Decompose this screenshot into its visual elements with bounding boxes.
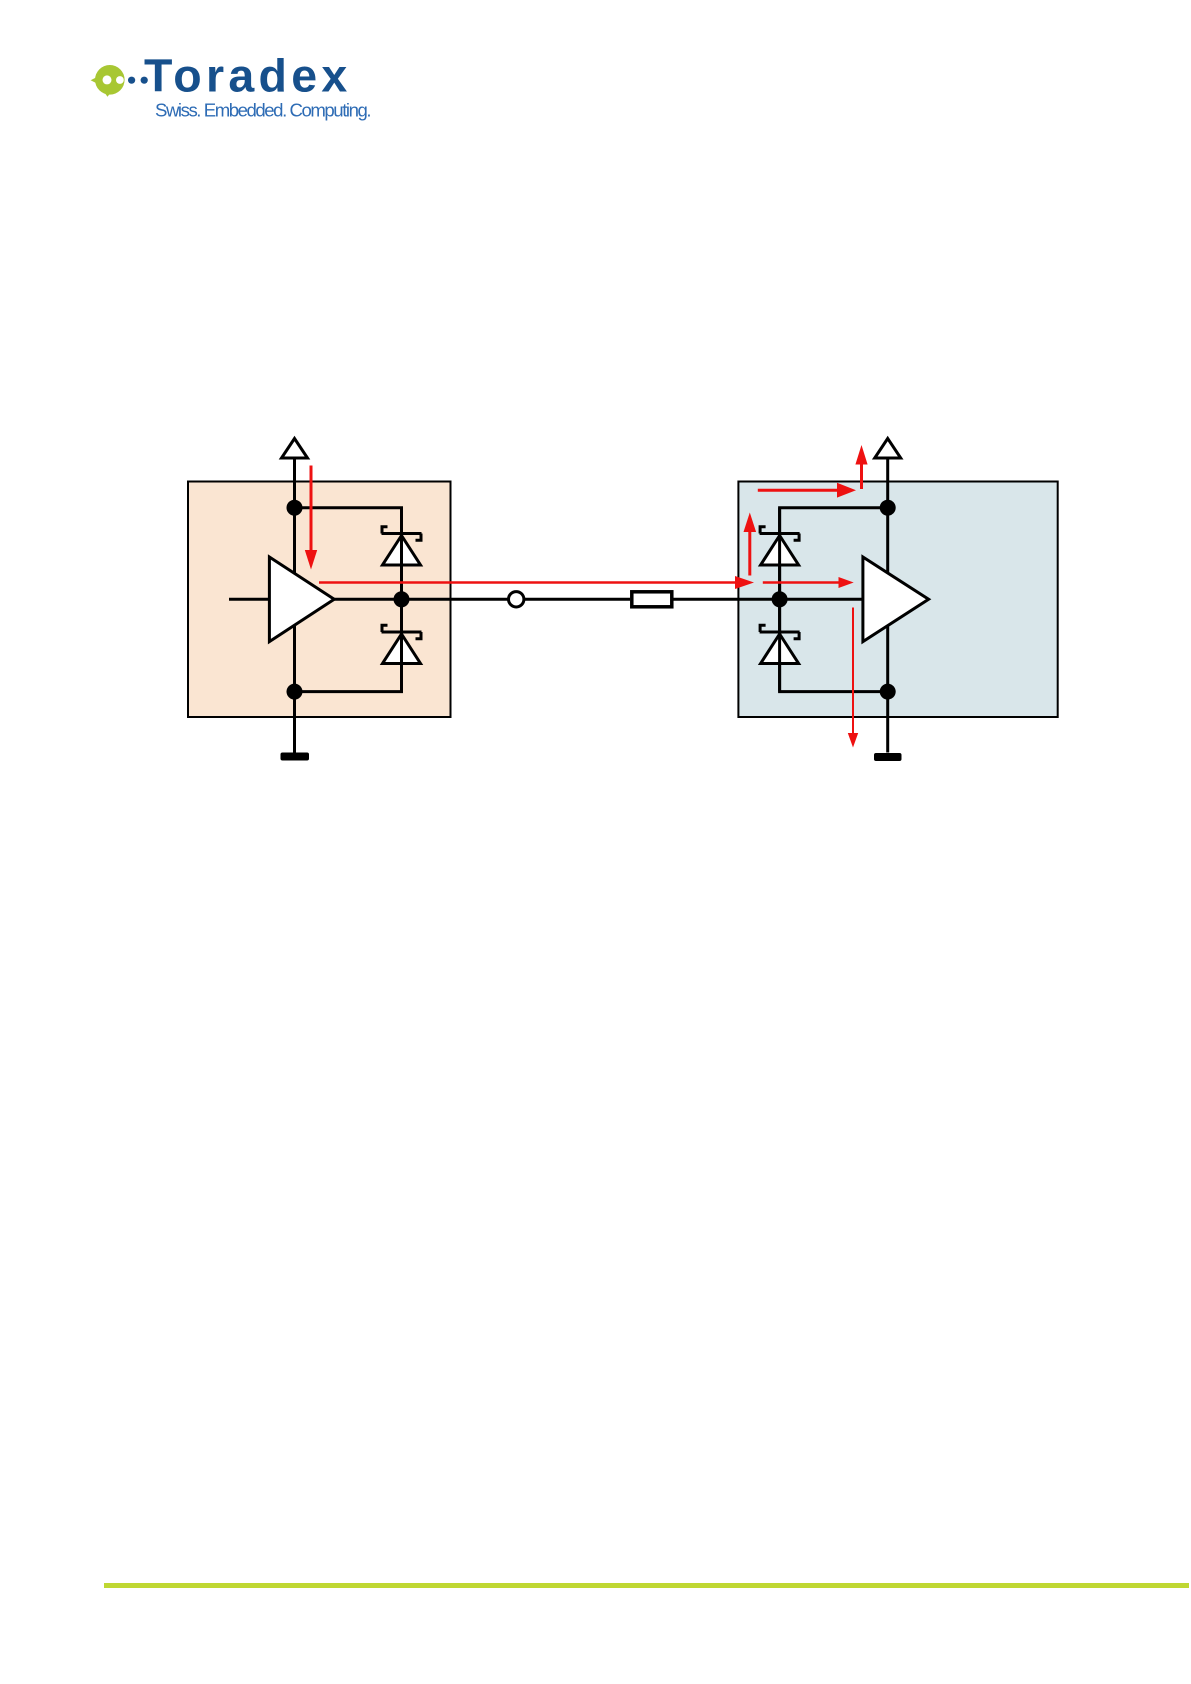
svg-text:Swiss. Embedded. Computing.: Swiss. Embedded. Computing. [155,100,370,121]
right supply rail wire [886,458,889,753]
connector pin circle [509,592,524,607]
right diode branch wire [780,508,888,692]
node dot left supply top [287,500,303,516]
buffer U1 (driver) [269,557,334,642]
current arrow down to ground right [848,608,858,748]
power symbol VCC right [875,439,901,459]
current arrow into U2 input [763,577,854,588]
current arrow through top right diode (up) [744,513,757,576]
node dot left output [394,591,410,607]
current arrow along top wire to rail (right) [758,483,856,498]
current arrow up to VCC right [855,445,867,489]
ground left [281,753,310,761]
receiver block box (blue) [738,482,1057,718]
node dot right supply bottom [880,684,896,700]
left diode branch wire [295,508,402,692]
node dot left supply bottom [287,684,303,700]
current arrow down into U1 supply [305,466,317,570]
input wire U1 [229,598,269,601]
left supply rail wire [293,458,296,753]
ground right [874,753,902,761]
driver block box (peach) [188,482,451,718]
svg-text:Toradex: Toradex [144,50,352,102]
node dot right supply top [880,500,896,516]
signal wire left segment [334,598,508,601]
signal wire middle segment [525,598,631,601]
node dot right input [772,591,788,607]
diode D2 (bottom left ESD diode) [382,599,422,691]
power symbol VCC left [282,439,308,459]
buffer U2 (receiver) [863,557,929,642]
series resistor [632,592,672,607]
current arrow signal path (long) [319,576,754,589]
Toradex logo mark [91,65,148,97]
diode D3 (top right ESD diode) [760,508,800,600]
signal wire right segment [673,598,863,601]
diode D4 (bottom right ESD diode) [760,599,800,691]
footer rule [104,1583,1189,1588]
diode D1 (top left ESD diode) [382,508,422,600]
